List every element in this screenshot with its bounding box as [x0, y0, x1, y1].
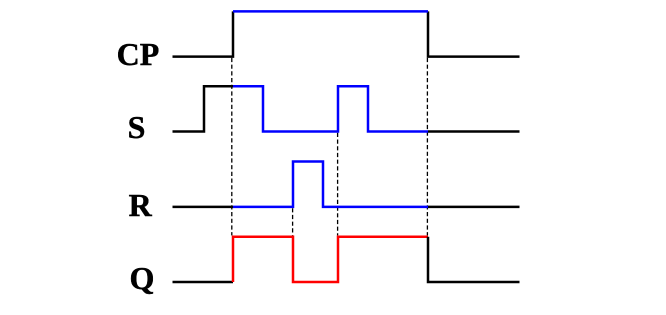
svg-text:CP: CP [117, 36, 160, 72]
svg-text:S: S [128, 109, 146, 145]
svg-text:R: R [129, 187, 153, 223]
svg-text:Q: Q [130, 260, 155, 296]
